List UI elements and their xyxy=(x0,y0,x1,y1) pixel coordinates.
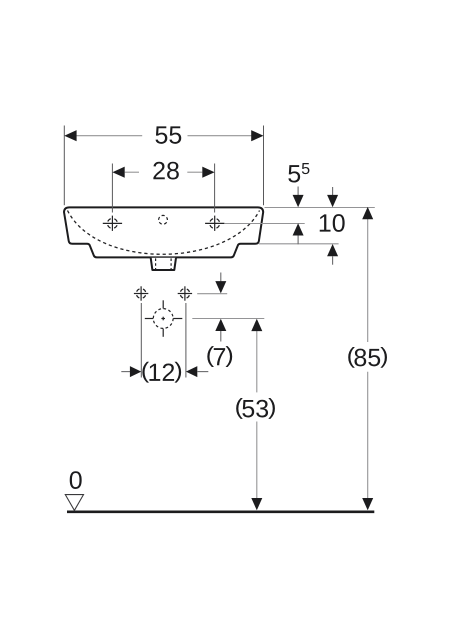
dimension (53) line upper part xyxy=(256,330,258,393)
drain dashed line right xyxy=(170,258,172,269)
dimension 55 line xyxy=(76,135,252,137)
dimension (7) label xyxy=(207,346,232,367)
dimension (85) upper arrow xyxy=(362,207,373,219)
dimension 55 extension line right xyxy=(263,126,265,206)
centre tap hole dashed circle xyxy=(159,215,168,224)
dimension 28 line right part xyxy=(187,171,202,173)
dimension 5.5 upper arrow xyxy=(293,187,304,208)
dimension 55 label xyxy=(155,126,181,143)
dimension 10 upper arrow xyxy=(327,187,338,207)
dimension (12) extension line right xyxy=(185,303,187,378)
dimension (7) lower arrow xyxy=(215,319,226,342)
dimension 10 lower arrow xyxy=(327,244,338,265)
fixing hole right crosshair xyxy=(178,286,192,300)
drain dashed line left xyxy=(155,258,157,269)
dimension 28 line left part xyxy=(125,171,139,173)
dimension 10 label xyxy=(320,214,345,232)
dimension 55 arrowhead right xyxy=(251,130,263,141)
dimension 5.5 lower arrow xyxy=(293,223,304,244)
dimension (12) extension line left xyxy=(140,303,142,378)
dimension (53) lower arrow xyxy=(251,498,262,510)
dimension (53) line lower part xyxy=(256,422,258,501)
floor datum label 0 xyxy=(70,471,82,489)
dimension 28 label xyxy=(153,162,178,180)
tap hole right crosshair xyxy=(205,216,224,231)
dimension 5.5 label xyxy=(288,163,309,183)
dimension (53) label xyxy=(236,398,275,419)
siphon level leader line xyxy=(192,318,264,320)
dimension 55 extension line left xyxy=(63,126,65,206)
dimension (7) upper arrow xyxy=(215,273,226,294)
fixing hole level leader line xyxy=(197,293,227,295)
dimension (12) arrow left xyxy=(121,366,141,377)
dimension (85) label xyxy=(348,347,387,368)
washbasin body outline xyxy=(64,207,263,257)
dimension (12) arrow right xyxy=(186,366,208,377)
dimension 28 extension line left xyxy=(111,164,113,213)
fixing hole left crosshair xyxy=(134,286,148,300)
dimension 55 arrowhead left xyxy=(64,130,76,141)
tap hole level leader line xyxy=(225,223,305,225)
drain outlet xyxy=(151,258,176,270)
siphon hole centre mark xyxy=(145,300,183,337)
step level leader line xyxy=(259,243,339,245)
dimension (53) upper arrow xyxy=(251,319,262,331)
rim level leader line xyxy=(265,207,375,209)
dimension 28 arrowhead left xyxy=(112,167,124,178)
dimension (85) line upper part xyxy=(367,218,369,342)
tap hole left crosshair xyxy=(103,216,122,231)
floor datum triangle xyxy=(65,495,83,511)
dimension (12) label xyxy=(142,362,181,383)
basin bowl dashed curve xyxy=(68,211,260,255)
dimension (85) line lower part xyxy=(367,372,369,500)
floor line xyxy=(67,510,374,513)
dimension 28 extension line right xyxy=(214,164,216,213)
dimension (85) lower arrow xyxy=(362,498,373,510)
dimension 28 arrowhead right xyxy=(202,167,214,178)
